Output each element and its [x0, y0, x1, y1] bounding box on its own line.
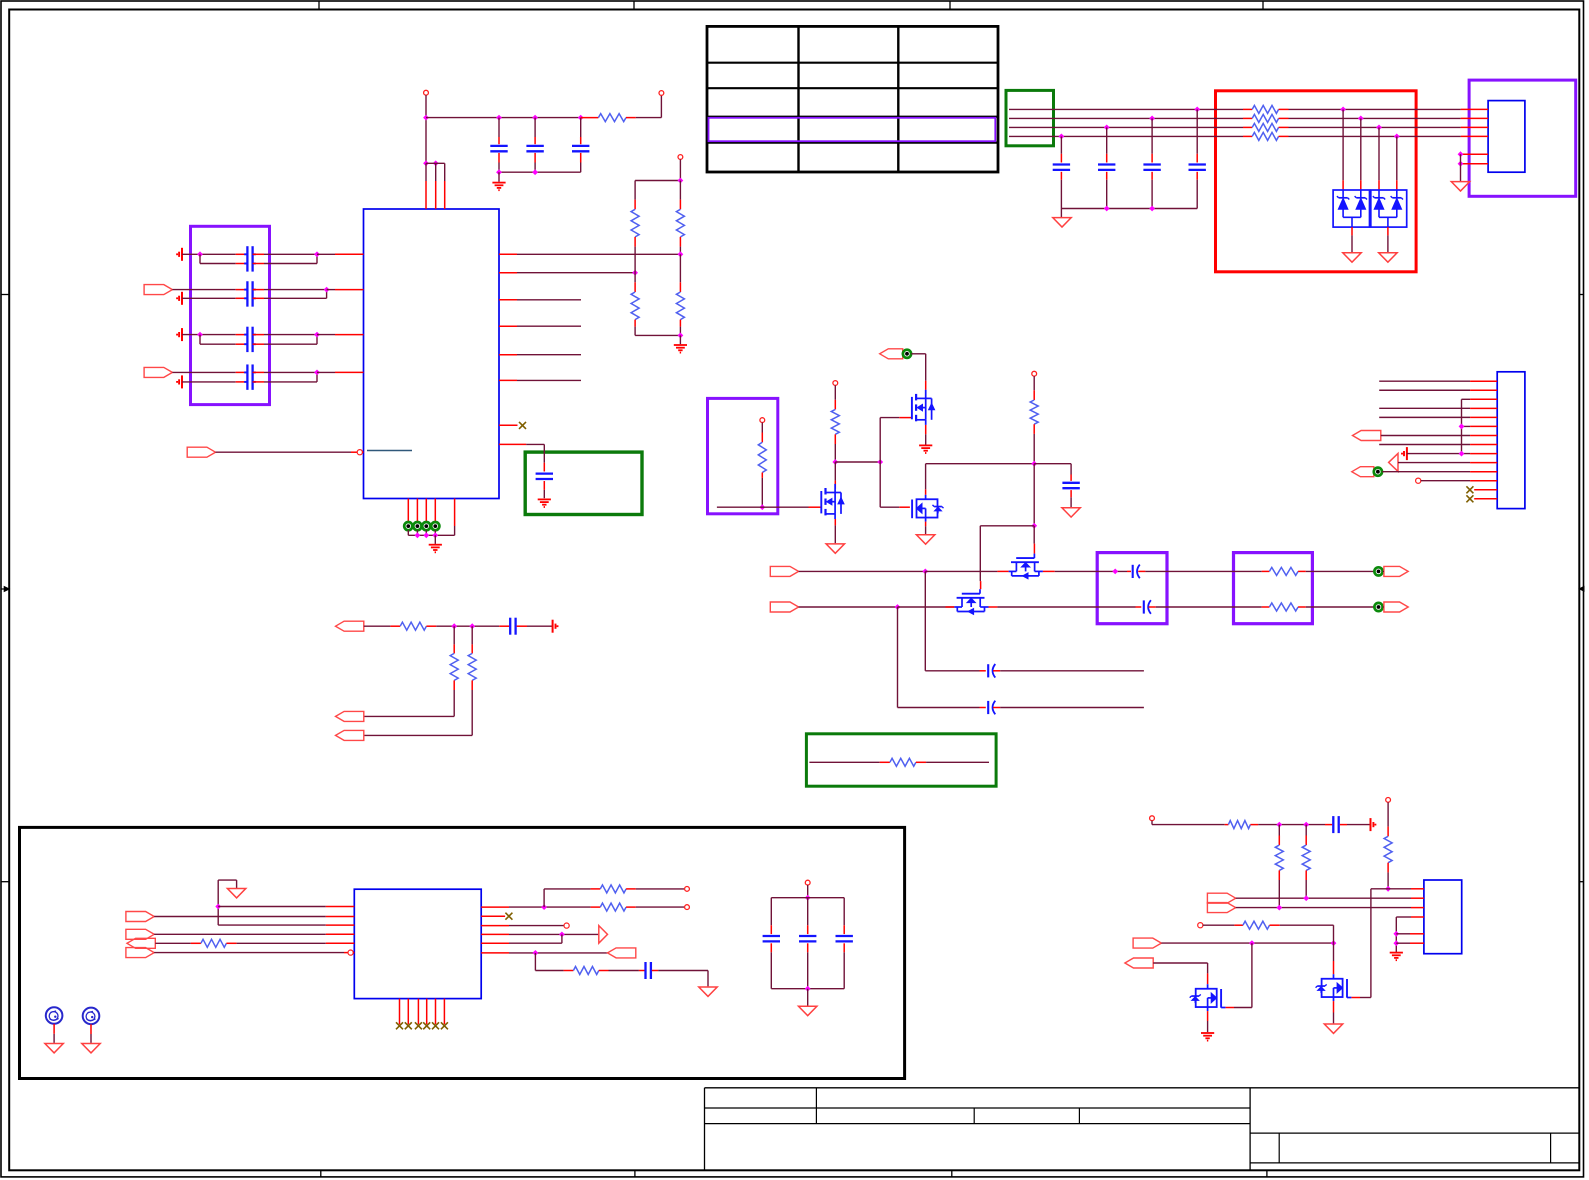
transistor Q3 [911, 500, 913, 519]
wire bus line4 [1009, 135, 1243, 137]
wire conn2 pin9 [1407, 453, 1470, 455]
flag conn2 pin11 [1352, 467, 1374, 477]
capacitor coupling row2 [236, 289, 248, 291]
wire [425, 95, 427, 163]
resistor R17 [591, 906, 601, 908]
ground chassis [826, 544, 844, 553]
tvs diode D1 [1342, 190, 1344, 197]
capacitor bank C [843, 898, 845, 926]
node [1149, 116, 1155, 122]
ic U1 [364, 209, 500, 499]
ground left-rotated row1 [181, 248, 183, 261]
wire pin [434, 499, 436, 523]
wire [1378, 127, 1380, 180]
connector J2 [1497, 372, 1525, 509]
node [832, 459, 838, 465]
resistor R13 [453, 626, 455, 644]
wire [636, 117, 662, 119]
wire u2 pinE [155, 942, 190, 944]
wire [1280, 924, 1334, 926]
fiducial logo 1 [46, 1007, 63, 1024]
wire [172, 371, 235, 373]
wire Q1 source [834, 519, 836, 525]
capacitor C9 polarized [980, 707, 986, 709]
resistor Rb3 [1252, 123, 1278, 131]
ground [498, 172, 500, 182]
ground left-rotated row3 [181, 328, 183, 341]
title block [704, 1088, 706, 1171]
wire [1278, 880, 1280, 908]
wire bus2 [517, 272, 635, 274]
wire Q6 source [1207, 1011, 1209, 1021]
wire net2 [799, 606, 898, 608]
flag rc out2 [336, 730, 364, 740]
flag out2 [770, 602, 798, 612]
node [678, 333, 684, 339]
resistor R12 [390, 625, 400, 627]
node [423, 532, 429, 538]
node [1458, 161, 1464, 167]
wire [364, 625, 391, 627]
triangle marker [599, 926, 608, 944]
ic U1 internal marker [367, 450, 412, 452]
tvs diode D4 [1396, 190, 1398, 197]
node [1385, 886, 1391, 892]
wire [1289, 126, 1461, 128]
open pin circle [1416, 478, 1421, 483]
capacitor tap C1 [1196, 109, 1198, 153]
frame zone ticks right [1579, 294, 1583, 296]
node [1340, 107, 1346, 113]
resistor R20 to wireB [1278, 825, 1280, 836]
wire Q5 gate riser [980, 525, 1034, 527]
flag enable2 [1133, 938, 1161, 948]
no-connect [1466, 495, 1473, 502]
wire pin [1462, 153, 1488, 155]
wire [264, 334, 317, 336]
node power bus [423, 115, 429, 121]
wire pin [1462, 163, 1488, 165]
wire [1387, 872, 1389, 888]
ground left-rotated row2 [181, 292, 183, 305]
capacitor C11 [639, 970, 645, 972]
wire [809, 761, 879, 763]
transistor Q6 [1220, 989, 1222, 1008]
resistor R9 [1262, 570, 1270, 572]
wire pin [416, 499, 418, 523]
no-connect pin [407, 999, 409, 1025]
antenna triangle [1389, 453, 1398, 471]
red box ESD [1216, 91, 1417, 272]
capacitor tap C4 [1060, 136, 1062, 153]
capacitor bank C [770, 898, 772, 926]
wire Q3 drain [925, 489, 927, 494]
wire ic top pins [423, 160, 429, 166]
green box G1 [1006, 90, 1054, 145]
wire [1289, 108, 1461, 110]
wire net1 [799, 570, 926, 572]
ground chassis top [217, 880, 219, 925]
node [1031, 461, 1037, 467]
capacitor C8 polarized [980, 670, 986, 672]
wire u2 pinC [218, 924, 326, 926]
power port VCC2 [659, 91, 664, 96]
wire [1351, 227, 1353, 235]
wire netC [1161, 942, 1333, 944]
node [496, 169, 502, 175]
node [1104, 125, 1110, 131]
wire [1151, 821, 1153, 825]
wire pin [499, 354, 517, 356]
wire [517, 325, 581, 327]
node [532, 115, 538, 121]
capacitor C10 [499, 625, 509, 627]
node [578, 115, 584, 121]
ground chassis [1324, 1024, 1342, 1033]
node [197, 332, 203, 338]
node [678, 178, 684, 184]
capacitor tap C3 [1106, 127, 1108, 153]
ground [1390, 952, 1403, 954]
wire [1306, 570, 1375, 572]
node [922, 569, 928, 575]
wire pin stub [317, 371, 335, 373]
wire [1055, 570, 1127, 572]
ground [679, 335, 681, 344]
wire [761, 478, 763, 507]
wire [679, 159, 681, 180]
wire u2 pinF [154, 952, 344, 954]
capacitor coupling row1 [236, 253, 248, 255]
no-connect pin [417, 999, 419, 1025]
wire gate Q1 [717, 506, 809, 508]
no-connect pin [435, 999, 437, 1025]
tvs diode D2 [1360, 190, 1362, 197]
wire [416, 530, 418, 535]
wire conn2 pin12 [1421, 480, 1470, 482]
wire [53, 1024, 55, 1034]
wire cap bank bottom [771, 988, 844, 990]
node [1276, 822, 1282, 828]
resistor R6 [761, 423, 763, 433]
wire Q7 source [1333, 1001, 1335, 1012]
resistor R1 [581, 117, 599, 119]
fiducial logo 2 [83, 1008, 100, 1025]
node [432, 532, 438, 538]
no-connect [1466, 486, 1473, 493]
resistor R21 to wireA [1305, 825, 1307, 836]
node [1249, 940, 1255, 946]
wire [1387, 227, 1389, 235]
wire [509, 942, 562, 944]
flag rc in [336, 621, 364, 631]
wire conn2 pin4 [1379, 407, 1470, 409]
node [469, 623, 475, 629]
node [1149, 206, 1155, 212]
wire Q2 drain gnd [925, 425, 927, 434]
via test point [404, 522, 412, 530]
wire [1033, 434, 1035, 464]
node [1459, 424, 1465, 430]
flag enable [187, 447, 215, 457]
wire bus1 [517, 253, 680, 255]
revision table [707, 26, 998, 172]
resistor R16 [591, 888, 601, 890]
power port VCC9 [1386, 798, 1391, 803]
resistor Rb4 [1252, 132, 1278, 140]
via test point [903, 350, 911, 358]
frame center arrow left [1, 588, 9, 590]
flag out2 right [1384, 602, 1408, 612]
node [314, 251, 320, 257]
wire [636, 906, 685, 908]
capacitor C12 [1325, 824, 1332, 826]
node [532, 169, 538, 175]
wire pin [1474, 498, 1497, 500]
ground chassis [699, 987, 717, 996]
node [1276, 905, 1282, 911]
wire [1360, 118, 1362, 180]
wire [182, 381, 236, 383]
wire [1289, 117, 1461, 119]
purple box P4 [1234, 553, 1313, 624]
wire bus line1 [1009, 108, 1243, 110]
ground right-rotated [1370, 818, 1372, 831]
purple box P2 [708, 398, 778, 513]
purple box P3 [1097, 553, 1167, 624]
black outline box bottom-left [20, 827, 905, 1078]
ground right-rotated [552, 620, 554, 633]
transistor Q4 [1033, 554, 1035, 559]
wire u2 pinB [154, 916, 326, 918]
flag out1 [770, 566, 798, 576]
wire [609, 970, 639, 972]
wire [1145, 570, 1261, 572]
flag u2 b [126, 912, 154, 922]
resistor R11 [880, 761, 890, 763]
wire [199, 254, 201, 263]
wire pin [997, 570, 1008, 572]
wire [172, 289, 235, 291]
wire [182, 253, 236, 255]
wire conn2 pin10 [1398, 462, 1470, 464]
wire [925, 570, 997, 572]
capacitor tap C2 [1151, 118, 1153, 153]
wire pin [425, 499, 427, 523]
wire feedback1 [924, 571, 926, 670]
wire [182, 297, 236, 299]
wire [1306, 606, 1375, 608]
wire conn3 pin1 [1388, 888, 1411, 890]
wire [926, 761, 989, 763]
via test point [422, 522, 430, 530]
open pin circle [1198, 923, 1203, 928]
diode array DA2 box [1371, 190, 1407, 227]
node [1459, 451, 1465, 457]
power port VCC8 [1150, 816, 1155, 821]
wire [237, 942, 326, 944]
wire gate riser Q7 [1371, 888, 1388, 890]
frame zone ticks top [318, 1, 320, 10]
wire [1342, 109, 1344, 180]
wire [1000, 707, 1144, 709]
node [805, 986, 811, 992]
wire [997, 606, 1135, 608]
wire [199, 335, 201, 345]
capacitor C3 [580, 118, 582, 137]
ground left-rotated [1406, 447, 1408, 460]
wire snub cap [1034, 463, 1071, 465]
node [1194, 107, 1200, 113]
flag signal [880, 349, 903, 359]
wire bus line2 [1009, 117, 1243, 119]
frame zone ticks bottom [320, 1170, 322, 1177]
green box G2 [525, 452, 642, 514]
transistor Q2 [911, 397, 913, 419]
wire [517, 354, 581, 356]
wire Q2 gate [879, 418, 881, 462]
capacitor coupling row4 [236, 371, 248, 373]
tvs diode D3 [1378, 190, 1380, 197]
power port out2 [685, 905, 690, 910]
capacitor bank C [807, 898, 809, 926]
wire pin [1043, 570, 1055, 572]
open pin circle [564, 923, 569, 928]
flag conn2 pin7 [1353, 431, 1381, 441]
wire [1382, 471, 1470, 473]
highlight row purple [709, 118, 996, 141]
capacitor C1 [498, 118, 500, 137]
no-connect pin [399, 999, 401, 1025]
wire conn2 pin2 [1379, 389, 1470, 391]
wire Q7 drain [1333, 943, 1335, 961]
wire [526, 443, 544, 445]
capacitor C6 polarized [1127, 570, 1131, 572]
via test point [1374, 567, 1382, 575]
wire [1305, 880, 1307, 898]
wire diode bus [1343, 216, 1361, 218]
resistor R15 [191, 942, 201, 944]
node [1031, 523, 1037, 529]
wire [407, 530, 409, 535]
ground chassis [1053, 218, 1071, 227]
via test point [1374, 603, 1382, 611]
node [1358, 116, 1364, 122]
frame zone ticks left [1, 294, 9, 296]
wire [807, 989, 809, 1006]
wire [425, 530, 427, 535]
wire [454, 526, 456, 535]
wire [1033, 464, 1035, 526]
wire [1156, 606, 1262, 608]
wire [1000, 670, 1144, 672]
wire [471, 690, 473, 735]
connector J3 [1424, 880, 1462, 954]
resistor R22 [1387, 802, 1389, 826]
wire conn2 pin3 [1462, 398, 1471, 400]
node [1394, 134, 1400, 140]
wire [1381, 435, 1470, 437]
wire feedback2 [897, 607, 899, 708]
wire pin [481, 952, 509, 954]
purple box P5 [1469, 80, 1576, 196]
diode array DA1 box [1333, 190, 1369, 227]
wire [509, 952, 608, 954]
wire [1060, 209, 1062, 218]
wire [835, 461, 880, 463]
wire pin [946, 606, 955, 608]
resistor R8 [1033, 376, 1035, 390]
node [877, 459, 883, 465]
resistor R14 [471, 626, 473, 644]
resistor R2 [634, 181, 636, 200]
capacitor C2 [534, 118, 536, 137]
flag u2 d [126, 929, 154, 939]
wire [834, 444, 836, 462]
wire [509, 933, 599, 935]
power port VCC7 [805, 880, 810, 885]
node [451, 623, 457, 629]
node [541, 904, 547, 910]
resistor R3 [679, 181, 681, 200]
node [314, 370, 320, 376]
wire cap bank top [771, 897, 844, 899]
node [1112, 569, 1118, 575]
ground chassis [82, 1044, 100, 1053]
node [415, 532, 421, 538]
wire pin [481, 906, 509, 908]
node [197, 251, 203, 257]
no-connect pin [499, 424, 518, 426]
node [895, 604, 901, 610]
node [533, 950, 539, 956]
wire [434, 530, 436, 535]
wire pin [481, 942, 509, 944]
wire [636, 888, 685, 890]
wire cap bottom bus [499, 171, 581, 173]
flag in levelshift [1125, 958, 1153, 968]
node [1303, 822, 1309, 828]
wire bus line3 [1009, 126, 1243, 128]
ground chassis [916, 535, 934, 544]
flag input row2 [144, 285, 172, 295]
wire pin [1474, 489, 1497, 491]
resistor R19 [1225, 824, 1229, 826]
inverter bubble pin [348, 950, 353, 955]
ground [919, 444, 932, 446]
node [1393, 940, 1399, 946]
node [1303, 895, 1309, 901]
node [678, 251, 684, 257]
node [1376, 125, 1382, 131]
wire [90, 1024, 92, 1034]
ground chassis [799, 1006, 817, 1015]
via test point [1374, 468, 1382, 476]
node [496, 115, 502, 121]
wire Q4 gate riser [1033, 526, 1035, 544]
flag u2 f [126, 948, 154, 958]
inverter bubble pin [357, 450, 362, 455]
wire pin [499, 272, 517, 274]
flag drvA [1207, 893, 1235, 903]
wire pin [1410, 942, 1424, 944]
resistor Rb2 [1252, 114, 1278, 122]
wire [264, 371, 317, 373]
flag u2 e [127, 938, 155, 948]
flag drvB [1207, 903, 1235, 913]
frame center arrow right [1579, 588, 1583, 590]
no-connect pin [481, 915, 505, 917]
